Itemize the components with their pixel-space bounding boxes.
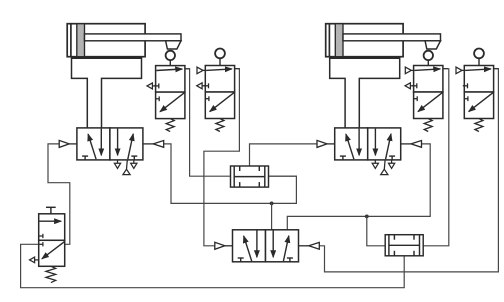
start valve exhaust port 3	[30, 257, 39, 263]
3/2 manual start valve SV	[39, 214, 65, 266]
start valve return spring	[46, 266, 56, 282]
start valve T-handle	[46, 207, 56, 214]
valve V2 exhaust port 3	[197, 83, 206, 89]
wire: start valve output to DCV1 left pilot	[48, 144, 70, 244]
wire: AND valve K2 right port to valve V3 output	[423, 69, 449, 246]
valve V4 supply source	[456, 67, 464, 74]
AND valve K1	[231, 166, 269, 187]
cylinder A piston rod	[85, 34, 182, 41]
node J2	[365, 215, 369, 219]
wire: node J1 down to valve VM top port 4	[271, 203, 273, 230]
DCV1 exhaust silencer port 5	[114, 160, 120, 169]
cylinder B body	[326, 24, 403, 57]
DCV2 exhaust silencer port 5	[372, 160, 378, 169]
roller valve V3	[412, 66, 448, 132]
cylinder B rod cam	[425, 41, 440, 49]
DCV2 exhaust silencer port 3	[389, 160, 395, 169]
valve V4 roller actuator	[474, 49, 484, 66]
tubing manifold under cylinder A	[72, 57, 142, 129]
wire: supply bus from start valve to AND valve K2 bottom port	[21, 244, 405, 287]
wire: DCV1 right pilot to bus, to AND valve K1 right port	[164, 144, 297, 204]
wire: AND valve K1 right port stub	[269, 175, 297, 177]
cylinder A rod cam	[166, 41, 181, 49]
wire: valve V4 output to valve VM right pilot	[319, 69, 498, 272]
valve V2 supply source	[197, 67, 205, 74]
AND valve K2	[385, 235, 423, 256]
cylinder B piston rod	[343, 34, 441, 41]
roller valve V2	[204, 66, 240, 132]
wire: valve V2 output to valve VM left pilot	[204, 69, 240, 246]
valve V1 exhaust port 3	[147, 83, 156, 89]
valve V3 supply source	[405, 67, 413, 74]
roller valve V1	[154, 66, 190, 132]
cylinder B piston	[335, 24, 343, 57]
wire: valve VM top port 2 to DCV2 right pilot	[287, 144, 430, 230]
5/2 directional valve DCV1	[59, 128, 164, 160]
node J1	[270, 202, 274, 206]
tubing manifold under cylinder B	[330, 57, 400, 129]
valve V1 roller actuator	[166, 51, 175, 66]
wire: valve V1 output to AND valve K1 left port	[190, 69, 231, 176]
cylinder A body	[67, 24, 145, 57]
valve V2 roller actuator	[215, 49, 225, 66]
5/2 memory valve VM	[215, 230, 319, 262]
valve V3 exhaust port 3	[405, 83, 414, 89]
wire: node J2 down to AND valve K2 left port	[367, 216, 385, 245]
start valve port 1 marker	[39, 242, 43, 246]
cylinder A piston	[77, 24, 85, 57]
DCV2 supply source port 1	[381, 160, 388, 175]
start valve blocked port	[39, 234, 43, 238]
5/2 directional valve DCV2	[317, 128, 422, 160]
valve V3 roller actuator	[424, 51, 433, 66]
DCV1 supply source port 1	[123, 160, 130, 175]
roller valve V4	[463, 66, 499, 132]
wire: AND valve K1 top port to DCV2 left pilot	[250, 144, 317, 166]
DCV1 exhaust silencer port 3	[131, 160, 137, 169]
